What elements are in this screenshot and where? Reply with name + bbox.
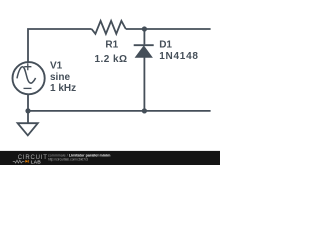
wire: bottom rail — [28, 110, 211, 112]
wire: resistor R1 right lead to top-right open end — [126, 28, 211, 30]
wire: ground stub — [27, 111, 29, 123]
diode D1 cathode bar — [134, 44, 154, 46]
svg-text:D1: D1 — [159, 40, 172, 51]
svg-text:V1: V1 — [50, 61, 63, 72]
svg-text:R1: R1 — [105, 40, 118, 51]
voltage source V1 plus sign — [24, 63, 31, 70]
svg-text:1 kHz: 1 kHz — [50, 83, 76, 94]
node: bottom junction of diode branch — [142, 108, 147, 113]
svg-text:LAB: LAB — [31, 159, 42, 165]
svg-text:1.2 kΩ: 1.2 kΩ — [95, 54, 128, 65]
ground symbol triangle — [18, 123, 38, 135]
node: bottom junction source / ground — [25, 108, 30, 113]
resistor R1 zigzag body — [92, 21, 126, 34]
wire: source top lead to top-left corner to resistor R1 left lead — [28, 29, 92, 62]
wire: source bottom lead — [27, 94, 29, 111]
footer logo resistor zigzag — [13, 160, 25, 163]
wire: diode D1 anode down to bottom rail — [143, 57, 145, 111]
svg-text:sine: sine — [50, 72, 70, 83]
voltage source V1 circle — [13, 62, 45, 94]
wire: top junction down to diode D1 cathode — [143, 29, 145, 44]
svg-text:http://circuitlab.com/c6kt7r3: http://circuitlab.com/c6kt7r3 — [48, 157, 88, 161]
svg-text:1N4148: 1N4148 — [159, 51, 199, 62]
voltage source V1 minus sign — [24, 87, 32, 89]
node: top junction of diode branch — [142, 26, 147, 31]
footer bar — [0, 151, 220, 165]
voltage source V1 sine waveform — [17, 67, 36, 83]
footer logo diode glyph (orange) — [25, 160, 28, 163]
diode D1 triangle (anode below, pointing up) — [136, 46, 152, 57]
